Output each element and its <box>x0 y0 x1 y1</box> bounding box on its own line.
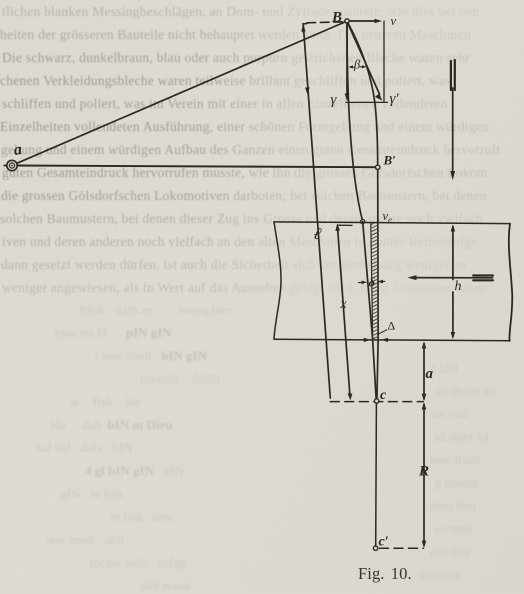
dimension x line (parallel to beam) <box>335 224 352 401</box>
svg-text:R: R <box>418 464 429 480</box>
wire: right edge continuation to c <box>377 339 378 399</box>
tick at top of x dimension <box>338 224 352 226</box>
curve: deflected path B through B' down along slit <box>348 23 378 339</box>
node c' <box>373 546 377 550</box>
slit width arrows at bottom plate <box>362 338 389 342</box>
svg-text:β: β <box>353 58 361 72</box>
svg-text:c′: c′ <box>379 535 389 550</box>
svg-text:ℓ: ℓ <box>312 223 323 243</box>
arrow: field direction (left) with double-bar tail <box>407 275 493 280</box>
svg-text:B: B <box>331 10 342 26</box>
dashed line c level (l corner to a line) <box>330 401 423 403</box>
dimension R line <box>422 402 427 548</box>
delta width arrows at slit <box>359 280 385 284</box>
break edge right <box>509 224 512 341</box>
svg-text:a: a <box>13 141 23 159</box>
arrow: field direction (down) with double-bar tail, upper right <box>450 60 455 180</box>
wire: beam from condenser exit to c <box>373 339 377 399</box>
svg-text:h: h <box>455 279 462 294</box>
svg-text:c: c <box>380 388 387 403</box>
svg-text:Δ: Δ <box>388 319 396 333</box>
wire: line A to B <box>17 22 345 163</box>
show-through printed text block (top) <box>0 0 524 320</box>
arrow v (initial velocity) <box>349 19 382 24</box>
slit: hatched diaphragm strip <box>366 219 383 349</box>
svg-text:v: v <box>391 14 397 28</box>
wire: gamma gamma' baseline <box>346 101 388 103</box>
wire: dimension line l (parallel to beam, B level down to c level) <box>303 24 330 398</box>
angle beta arrows <box>348 65 366 68</box>
label Delta and pointer <box>378 330 387 335</box>
svg-text:γ′: γ′ <box>390 91 400 107</box>
node B <box>345 19 349 23</box>
svg-text:γ: γ <box>331 92 338 108</box>
parabola: beam path B to slit entry <box>347 23 363 221</box>
dimension a line <box>422 341 427 401</box>
faint mirrored show-through fragments (lower page) <box>0 0 524 1</box>
node c <box>374 399 378 403</box>
svg-text:δ: δ <box>369 276 376 290</box>
break edge left <box>274 222 281 339</box>
svg-text:a: a <box>426 366 434 382</box>
arrow B to gamma <box>345 23 350 101</box>
svg-text:B′: B′ <box>383 153 397 168</box>
node A (double circle source point) <box>4 160 17 170</box>
dashed line c' to R line <box>380 547 424 549</box>
caption Fig. 10. <box>358 564 412 584</box>
wire: horizontal line A to B' <box>17 166 375 168</box>
plate: top condenser line <box>274 222 510 224</box>
svg-text:x: x <box>340 296 347 311</box>
dimension h line between plates <box>451 224 456 339</box>
wire: c to c' vertical <box>375 403 378 546</box>
plate: bottom condenser line <box>274 339 510 341</box>
arrowhead on line l <box>305 87 310 94</box>
node ve (slit entry) <box>361 220 365 224</box>
node B' <box>376 165 380 169</box>
wire: dashed line from corner to B <box>307 22 344 23</box>
wire: vertical line from v tip down to gamma' <box>383 21 385 102</box>
wire: beam inside condenser <box>363 222 373 340</box>
arrow B to gamma' <box>348 23 383 101</box>
corner tick of line l <box>303 23 307 32</box>
